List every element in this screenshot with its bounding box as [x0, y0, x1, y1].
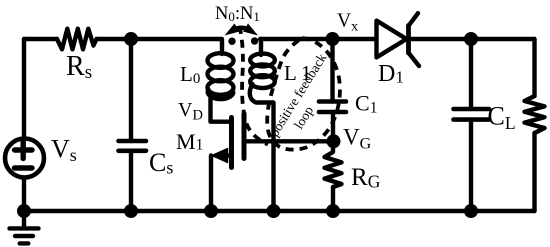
inductor L1: [259, 39, 263, 55]
positive feedback loop dashed ellipse: [267, 38, 340, 150]
wire left edge bottom: [22, 178, 26, 211]
wire right edge top: [532, 39, 536, 96]
node diode output: [464, 32, 478, 46]
wire C1 to VG: [331, 112, 335, 141]
wire C1 branch top: [330, 39, 334, 102]
wire diode to right: [407, 37, 535, 41]
resistor R_L right edge: [525, 96, 545, 133]
transformer phase dot right: [251, 37, 258, 44]
wire L0 bottom to drain: [211, 96, 232, 122]
wire top rail to L0: [97, 39, 223, 54]
node ground-left: [17, 204, 31, 218]
wire L1 bottom down: [250, 84, 274, 211]
wire Cs branch top: [129, 39, 133, 141]
resistor R_s: [57, 29, 97, 50]
wire M1 gate line: [244, 139, 334, 143]
transformer coupling arrow: [225, 24, 259, 36]
wire Cs branch bottom: [129, 151, 133, 211]
wire right edge bottom: [532, 133, 536, 211]
node V_x: [326, 32, 340, 46]
node RG bottom: [326, 204, 340, 218]
capacitor C_L: [454, 107, 490, 112]
capacitor C1: [319, 99, 346, 104]
wire bottom rail: [24, 209, 535, 213]
ground: [22, 211, 26, 227]
wire top-right rail: [260, 37, 375, 41]
diode D1: [377, 21, 407, 58]
transformer phase dot left: [228, 38, 235, 45]
transistor M1: [229, 118, 234, 168]
wire CL branch bottom: [469, 120, 473, 211]
source V_s: [5, 139, 44, 178]
node V_G: [327, 134, 341, 148]
node CL bottom: [464, 204, 478, 218]
node at Rs/Cs junction: [124, 32, 138, 46]
resistor R_G: [325, 141, 342, 211]
node L1 bottom: [267, 204, 281, 218]
wire CL branch top: [469, 39, 473, 109]
wire M1 source down: [209, 156, 213, 212]
capacitor C_s: [119, 139, 147, 144]
dashed curve between windings: [240, 26, 269, 145]
node Cs bottom: [124, 204, 138, 218]
node M1 source bottom: [204, 204, 218, 218]
svg-text:N0:N1: N0:N1: [215, 4, 260, 24]
inductor L0: [208, 53, 234, 68]
wire top-left rail: [24, 37, 57, 41]
wire left edge top: [22, 39, 26, 138]
